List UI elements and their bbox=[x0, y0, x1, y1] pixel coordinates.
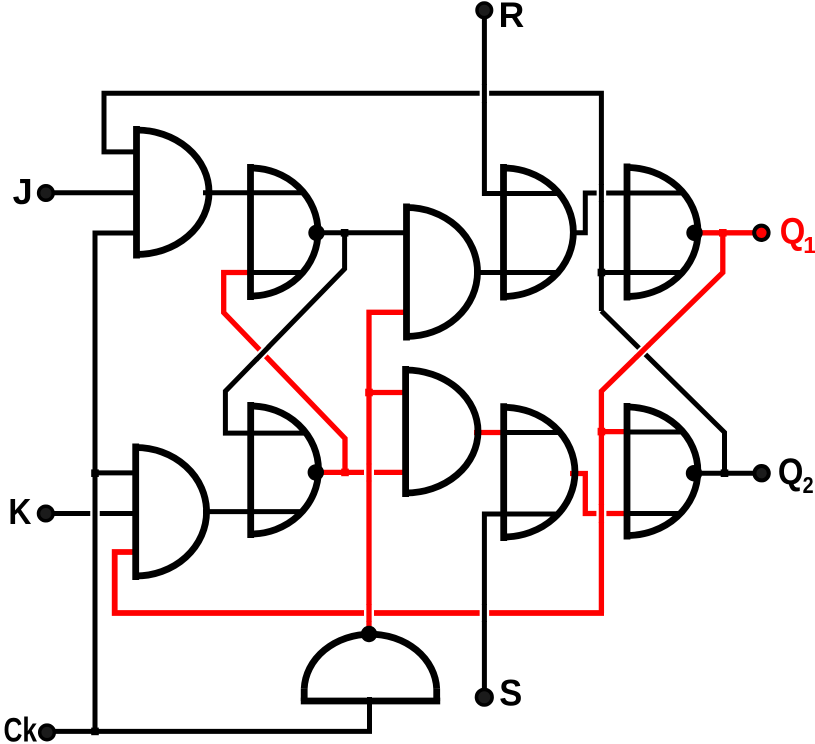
junction square: clock branch to U6 bbox=[91, 469, 99, 477]
junction square (red): Q1 feedback branch bbox=[719, 229, 727, 237]
junction square (red): cross diagonal joins U7 output wire bbox=[341, 469, 349, 477]
wire: clock branch to U6 top input bbox=[95, 470, 137, 475]
terminal Q1 (red) bbox=[754, 226, 768, 240]
crossing gap: black diagonal over red diagonal (left cross) bbox=[257, 347, 268, 358]
terminal R bbox=[477, 3, 492, 18]
node: U7 output dot bbox=[308, 464, 324, 480]
and-gate U10 (slave latch gate, Q2 output) bbox=[627, 403, 698, 540]
wire: S input up into U9 bottom input (through U9 interior) bbox=[484, 514, 560, 697]
node: U11 output dot on arch bbox=[361, 626, 377, 642]
wire: U2 output to U3 top input bbox=[317, 230, 407, 235]
and-gate U1 (J steering gate) bbox=[137, 126, 210, 259]
wire: U4 output jog up into U5 top input (through U5 interior) bbox=[570, 193, 685, 233]
crossing gap: clock vertical over K wire bbox=[90, 505, 100, 522]
crossing gap: red pulse vertical over red bottom bus bbox=[364, 605, 374, 621]
wire: U6 output to U7 bottom input (through U7 interior) bbox=[203, 509, 304, 514]
wire (red): U9 output jog down to U10 bottom input bbox=[570, 474, 625, 514]
wire (red): pulse vertical from U11 output up to U3 bottom input bbox=[369, 312, 407, 632]
wire: U10 bottom input interior line bbox=[627, 511, 681, 516]
wire: U5 bottom input branch from Q2 feedback vertical bbox=[601, 270, 684, 275]
wire: U10 output to Q2 terminal bbox=[694, 471, 762, 476]
junction square: Q2 feedback joins Q2 wire bbox=[721, 469, 729, 477]
svg-text:Ck: Ck bbox=[4, 712, 38, 744]
junction square: U2 output branch bbox=[341, 229, 349, 237]
junction square: clock vertical joins Ck line bbox=[91, 728, 99, 736]
terminal K bbox=[39, 506, 54, 521]
and-gate U11 (clock pulse gate, arch) bbox=[301, 634, 440, 701]
svg-text:2: 2 bbox=[803, 472, 814, 498]
wire: U2 bottom input interior line bbox=[251, 270, 306, 275]
wire: J input to U1 bbox=[46, 190, 134, 195]
and-gate U9 (S steering gate) bbox=[504, 403, 575, 541]
wire: Ck input line to pulse gate U11 bbox=[47, 697, 370, 731]
wire (red): U5 output to Q1 terminal bbox=[695, 230, 762, 235]
wire: clock vertical from Ck line up to U1 bottom input bbox=[95, 233, 137, 731]
svg-text:S: S bbox=[499, 673, 522, 714]
junction square (red): Q1 feedback branch to U10 top input bbox=[598, 428, 606, 436]
svg-text:R: R bbox=[499, 0, 525, 35]
junction square: U5 bottom input branch bbox=[598, 269, 606, 277]
and-gate U2 (master latch gate, top) bbox=[251, 164, 319, 300]
crossing gap: S vertical over red bottom bus bbox=[480, 605, 490, 621]
terminal Ck bbox=[40, 725, 55, 740]
wire (red): U7 output cross-diagonal up to U2 bottom input bbox=[224, 273, 345, 473]
wire: branch from U2 output down-diagonal to U7 top input bbox=[225, 233, 344, 433]
crossing gap: red Q1-feedback vertical over U9 output jog bbox=[596, 505, 606, 522]
svg-text:Q: Q bbox=[778, 451, 804, 492]
wire (red): Q1 feedback down-diagonal to U10 top input vertical and bottom bus bbox=[601, 233, 722, 613]
and-gate U7 (master latch gate, bottom) bbox=[251, 402, 319, 538]
terminal S bbox=[477, 689, 493, 705]
wire (red): branch to U8 top input bbox=[369, 390, 406, 395]
svg-text:K: K bbox=[8, 491, 32, 532]
wire (red): U8 output to U9 top input bbox=[474, 430, 504, 435]
crossing gap: R line over top bus bbox=[480, 85, 490, 102]
wire: top feedback bus (Q2 net) with corner down to G1 top input and right corner down to G5 bbox=[104, 93, 601, 311]
and-gate U3 (center top gate) bbox=[407, 204, 478, 341]
junction square (red): pulse branch to U8 top input bbox=[365, 389, 373, 397]
and-gate U5 (slave latch gate, Q1 output) bbox=[627, 164, 698, 301]
node: U10 output dot bbox=[686, 465, 702, 481]
terminal J bbox=[39, 186, 54, 201]
wire: Q2 feedback diagonal down to Q2 output node bbox=[601, 311, 724, 473]
and-gate U6 (K steering gate) bbox=[136, 444, 207, 581]
svg-text:1: 1 bbox=[803, 232, 815, 258]
crossing gap: Q2 feedback vertical over U4-U5 jog bbox=[597, 185, 607, 201]
wire: U10 top input interior line bbox=[627, 430, 685, 435]
svg-text:J: J bbox=[13, 171, 33, 212]
terminal Q2 bbox=[754, 466, 768, 480]
wire (red): U7 output to U8 bottom input bbox=[316, 470, 406, 475]
node: U5 output dot bbox=[686, 225, 702, 241]
and-gate U8 (center bottom gate) bbox=[406, 366, 478, 497]
wire (red): branch to U10 top input bbox=[601, 429, 625, 434]
svg-text:Q: Q bbox=[780, 210, 806, 251]
wire: U1 output to U2 top input (through U2 interior) bbox=[203, 190, 306, 195]
wire: K input to U6 middle input bbox=[46, 511, 134, 516]
and-gate U4 (R steering gate) bbox=[504, 164, 574, 301]
wire: U3 output to U4 bottom input (through U4 interior) bbox=[474, 270, 560, 275]
crossing gap: red pulse vertical over U7 output wire bbox=[364, 464, 374, 482]
node: U2 output dot bbox=[308, 225, 324, 241]
crossing gap: red diagonal over black diagonal (right cross) bbox=[637, 346, 648, 357]
wire: U9 top input interior line bbox=[504, 430, 562, 435]
wire: R input down into U4 top input (through U4 interior) bbox=[484, 10, 561, 193]
